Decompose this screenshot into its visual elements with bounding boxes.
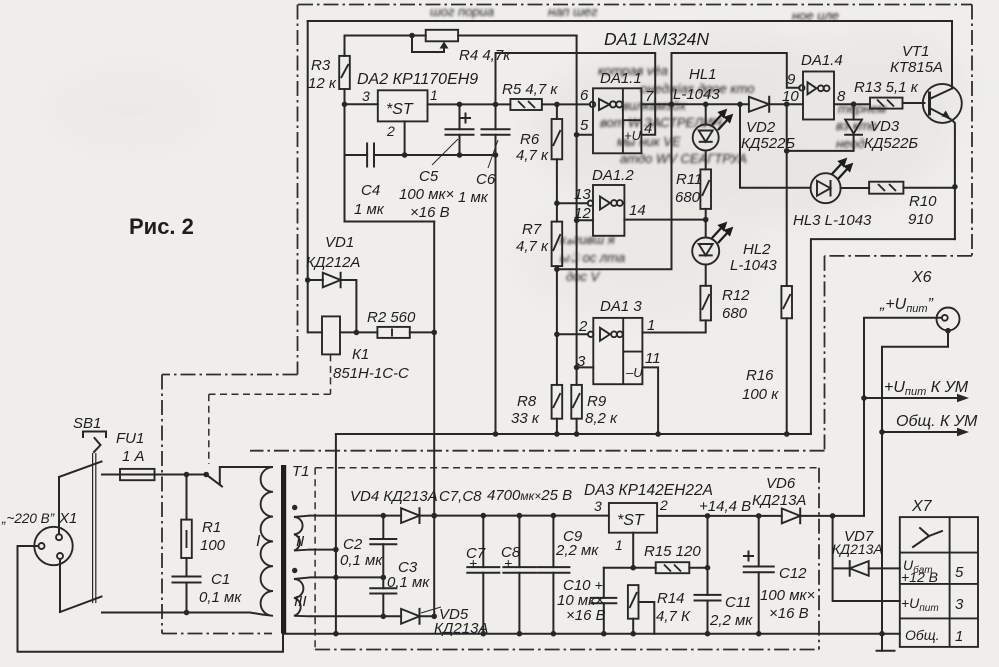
- svg-text:R12: R12: [722, 287, 750, 304]
- wire DA1.4 output: [834, 103, 870, 105]
- capacitor C1: [173, 577, 201, 613]
- node C3 bottom: [381, 614, 387, 620]
- svg-text:2,2 мк: 2,2 мк: [555, 542, 599, 559]
- svg-text:×16 В: ×16 В: [410, 204, 450, 221]
- node pin2 tap: [554, 332, 560, 338]
- node feedback output: [669, 102, 675, 108]
- svg-text:VD2: VD2: [746, 119, 776, 136]
- svg-text:7: 7: [645, 88, 654, 105]
- node R16 bus: [784, 431, 790, 437]
- node C9 bottom: [551, 631, 557, 637]
- svg-text:ыට ос лта: ыට ос лта: [560, 250, 625, 265]
- node R5 R6: [554, 102, 560, 108]
- node C6 top: [493, 102, 499, 108]
- node pin13 tap: [554, 200, 560, 206]
- svg-text:9: 9: [787, 71, 796, 88]
- svg-text:DA1 LM324N: DA1 LM324N: [604, 29, 709, 49]
- X7 plug symbol: [913, 528, 942, 547]
- capacitor C12: [744, 516, 774, 634]
- polarity plus of C12: [744, 552, 753, 561]
- common end bar: [877, 650, 895, 652]
- resistor R11: [700, 169, 711, 219]
- capacitor C11: [695, 595, 721, 601]
- pin 6 bubble: [590, 102, 595, 107]
- capacitor C8: [503, 516, 535, 634]
- resistor R1: [181, 475, 192, 577]
- svg-text:R9: R9: [587, 393, 607, 410]
- wire C4 line to raw bus: [345, 155, 435, 222]
- wire left rail down to K1: [308, 21, 322, 332]
- capacitor C2: [370, 516, 396, 578]
- svg-text:100 мк×: 100 мк×: [399, 186, 454, 203]
- wire pin 3: [577, 366, 593, 368]
- wire pole2 line: [102, 613, 262, 615]
- node R4 wiper junction: [409, 33, 415, 39]
- node R1 tap: [184, 472, 190, 478]
- node C7 bottom: [481, 631, 487, 637]
- node diode output bus: [431, 513, 437, 519]
- wire DA1.2 output: [624, 219, 705, 221]
- svg-text:3: 3: [955, 596, 964, 613]
- node C7 top: [481, 513, 487, 519]
- svg-text:Общ.: Общ.: [905, 627, 940, 643]
- svg-text:DA1 3: DA1 3: [600, 298, 642, 315]
- wire DA2 pin2 down: [404, 121, 406, 155]
- svg-text:100 мк×: 100 мк×: [760, 587, 815, 604]
- T1 primary winding I: [252, 467, 273, 616]
- wire DA2 output line: [428, 103, 511, 105]
- svg-text:C1: C1: [211, 571, 230, 588]
- connector X1: [34, 527, 72, 565]
- reference column B: [576, 36, 578, 385]
- wire X6 shell common: [882, 331, 948, 651]
- wire winding II bottom lead: [310, 549, 336, 551]
- wire VT1 collector riser: [951, 21, 953, 85]
- svg-text:вот W ЗАСТРЕЛИН: вот W ЗАСТРЕЛИН: [600, 115, 722, 130]
- svg-text:100 к: 100 к: [742, 386, 779, 403]
- wire X1 phase up: [58, 477, 60, 534]
- border top: [298, 4, 972, 6]
- svg-text:C2: C2: [343, 536, 363, 553]
- resistor R7: [552, 222, 563, 385]
- HL3 emission arrows: [832, 160, 852, 180]
- voltage regulator DA2: [378, 90, 428, 121]
- supply ground bus: [283, 633, 900, 635]
- svg-text:4,7 к: 4,7 к: [516, 238, 549, 255]
- divider column A R6: [552, 104, 563, 221]
- svg-text:2: 2: [659, 497, 668, 513]
- svg-text:L-1043: L-1043: [730, 257, 777, 274]
- svg-text:8,2 к: 8,2 к: [585, 410, 618, 427]
- svg-text:14: 14: [629, 202, 646, 219]
- wire feedback and pin9 route: [557, 53, 800, 269]
- diode VD1: [308, 273, 357, 333]
- border bottom of upper block: [250, 450, 825, 452]
- svg-text:+: +: [504, 555, 512, 571]
- node R3 pin3: [342, 102, 348, 108]
- resistor R12: [700, 286, 711, 321]
- svg-text:6: 6: [580, 87, 589, 104]
- HL2 emission arrows: [712, 224, 732, 244]
- svg-text:R6: R6: [520, 131, 540, 148]
- node C8 bottom: [517, 631, 523, 637]
- svg-text:R14: R14: [657, 590, 685, 607]
- capacitor C6: [482, 53, 510, 434]
- connector X6: [937, 308, 960, 334]
- regulator DA3: [609, 503, 657, 533]
- diode VD2: [749, 97, 803, 112]
- svg-text:12 к: 12 к: [308, 75, 337, 92]
- svg-text:+14,4 В: +14,4 В: [699, 498, 751, 515]
- svg-text:×16 В: ×16 В: [769, 605, 809, 622]
- svg-text:DA2 КР1170ЕН9: DA2 КР1170ЕН9: [357, 71, 478, 88]
- wire X6 pin feed: [864, 318, 942, 516]
- svg-text:кەгивш я: кەгивш я: [560, 232, 615, 247]
- switch SB1 pole 1: [59, 462, 102, 478]
- op-amp DA1.4: [803, 72, 834, 120]
- pin 2 bubble: [588, 332, 593, 337]
- svg-text:R4 4,7к: R4 4,7к: [459, 47, 511, 64]
- node pin3 tap: [574, 365, 580, 371]
- svg-text:R8: R8: [517, 393, 537, 410]
- svg-text:Рис. 2: Рис. 2: [129, 214, 194, 239]
- capacitor C4: [367, 144, 374, 167]
- svg-text:R15 120: R15 120: [644, 543, 701, 560]
- wire pin 2: [557, 333, 588, 335]
- node +Uпит tap: [861, 395, 867, 401]
- svg-text:VD6: VD6: [766, 475, 796, 492]
- node C12 bottom: [756, 631, 762, 637]
- svg-text:R1: R1: [202, 519, 221, 536]
- node R11 DA1.2 out: [703, 217, 709, 223]
- wire X1 shell to earth line: [18, 546, 284, 652]
- svg-text:DA1.4: DA1.4: [801, 52, 843, 69]
- diode VD7: [850, 561, 900, 576]
- node center column ground bus: [333, 631, 339, 637]
- border step left: [162, 374, 298, 376]
- node C12 top: [756, 513, 762, 519]
- common bus of upper block: [336, 433, 811, 435]
- border step right: [825, 255, 973, 257]
- polarity dot III: [292, 568, 297, 573]
- svg-text:К1: К1: [352, 346, 369, 363]
- svg-text:3: 3: [362, 88, 370, 104]
- resistor R9: [571, 385, 582, 434]
- svg-text:1 мк: 1 мк: [354, 201, 385, 218]
- border right: [971, 5, 973, 256]
- node VD5 riser: [431, 614, 437, 620]
- svg-text:1 мк: 1 мк: [458, 189, 489, 206]
- resistor R3: [339, 36, 350, 156]
- svg-text:4,7 к: 4,7 к: [516, 147, 549, 164]
- wire DA1.3 output: [642, 320, 705, 332]
- svg-text:VD3: VD3: [870, 118, 900, 135]
- svg-text:5: 5: [580, 117, 589, 134]
- svg-text:КД522Б: КД522Б: [864, 135, 918, 152]
- wire emitter return to bus: [811, 239, 955, 434]
- resistor R15: [656, 562, 708, 573]
- svg-text:КТ815А: КТ815А: [890, 59, 943, 76]
- node C9 top: [551, 513, 557, 519]
- relay contact K1.1: [203, 467, 252, 487]
- svg-text:0,1 мк: 0,1 мк: [340, 552, 383, 569]
- svg-text:1: 1: [615, 537, 623, 553]
- pin 13 bubble: [588, 201, 593, 206]
- wire DA2 pin3: [345, 103, 378, 105]
- resistor R10: [869, 182, 955, 194]
- svg-text:4: 4: [644, 120, 652, 137]
- node feedback tap: [554, 266, 560, 272]
- node pin5 tap: [574, 132, 580, 138]
- resistor R5: [510, 99, 542, 110]
- wire pole1 to fuse: [102, 474, 206, 476]
- svg-text:Общ. К УМ: Общ. К УМ: [896, 413, 978, 430]
- border left lower: [161, 375, 163, 634]
- node pin11 bus: [655, 431, 661, 437]
- node HL1 tap: [703, 102, 709, 108]
- diode VD5: [401, 609, 434, 624]
- wire regulator ground line: [345, 154, 496, 156]
- node C2 top: [381, 513, 387, 519]
- svg-text:SB1: SB1: [73, 415, 101, 432]
- svg-text:FU1: FU1: [116, 430, 144, 447]
- wire R3 to R4: [345, 35, 426, 37]
- svg-text:10: 10: [782, 88, 799, 105]
- switch SB1 pole 2: [60, 597, 102, 613]
- node C6 gnd: [493, 152, 499, 158]
- node VD3 R16 column: [784, 148, 790, 154]
- top supply rail: [308, 20, 952, 22]
- wire DA1.1 output: [641, 103, 749, 105]
- wire DA3 output line: [657, 515, 782, 517]
- svg-text:2,2 мк: 2,2 мк: [709, 612, 753, 629]
- node R8 bus: [554, 431, 560, 437]
- node VD2 DA1.4 input: [784, 101, 790, 107]
- border left: [297, 5, 299, 375]
- op-amp DA1.1: [593, 88, 641, 153]
- svg-text:+Uпит К УМ: +Uпит К УМ: [884, 379, 969, 398]
- wire output sense column: [707, 516, 709, 634]
- svg-text:2: 2: [386, 123, 395, 139]
- svg-text:R10: R10: [909, 193, 937, 210]
- svg-text:1: 1: [955, 628, 963, 645]
- node C8 top: [517, 513, 523, 519]
- wire pin 12: [577, 219, 593, 221]
- capacitor C7: [467, 516, 499, 634]
- svg-text:II: II: [296, 533, 304, 550]
- node C2 C3 junction: [381, 575, 387, 581]
- resistor R2: [377, 327, 434, 338]
- svg-text:1: 1: [647, 317, 655, 334]
- diode VD3: [787, 104, 862, 151]
- wire pin 11 to bus: [642, 367, 658, 434]
- svg-text:X1: X1: [58, 510, 77, 527]
- node VD1 cathode R2: [354, 330, 360, 336]
- svg-text:T1: T1: [292, 463, 310, 480]
- capacitor C9: [537, 516, 569, 634]
- pushbutton SB1 actuator: [83, 432, 106, 453]
- node output VD3: [851, 101, 857, 107]
- wire winding III top lead: [310, 576, 383, 578]
- svg-text:11: 11: [645, 350, 661, 367]
- leader VD5: [421, 607, 441, 613]
- svg-text:VD4 КД213А: VD4 КД213А: [350, 488, 438, 505]
- svg-text:851Н-1С-С: 851Н-1С-С: [333, 365, 409, 382]
- node C6 column bus: [493, 431, 499, 437]
- svg-text:шог пориа: шог пориа: [430, 4, 494, 19]
- node VD1 anode: [305, 277, 311, 283]
- node C5 bottom: [457, 152, 463, 158]
- svg-text:DA3 КР142ЕН22А: DA3 КР142ЕН22А: [584, 482, 713, 499]
- node adj R14: [630, 565, 636, 571]
- svg-text:4,7 К: 4,7 К: [656, 608, 691, 625]
- svg-text:2: 2: [578, 318, 588, 335]
- T1 winding II: [294, 516, 310, 551]
- power-supply block border: [314, 468, 316, 650]
- svg-text:R11: R11: [676, 171, 702, 188]
- connector X7 table: [900, 517, 978, 647]
- svg-text:13: 13: [574, 186, 591, 203]
- wire winding III bottom lead: [310, 615, 401, 617]
- wire VD7 branch column: [833, 516, 900, 601]
- node R9 bus: [574, 431, 580, 437]
- svg-text:X7: X7: [911, 498, 933, 515]
- node C1 bottom: [184, 610, 190, 616]
- node center tap: [333, 575, 339, 581]
- node emitter R10: [952, 184, 958, 190]
- svg-text:–U: –U: [625, 365, 643, 380]
- wire R14 side stub: [639, 602, 655, 634]
- LED HL2: [692, 220, 719, 286]
- svg-text:R13 5,1 к: R13 5,1 к: [854, 79, 919, 96]
- polarity dot II: [292, 505, 297, 510]
- SB1 linkage stem: [93, 453, 96, 603]
- svg-text:R7: R7: [522, 221, 542, 238]
- node VD4 output: [431, 513, 437, 519]
- svg-text:C12: C12: [779, 565, 807, 582]
- svg-text:„~220 В”: „~220 В”: [1, 511, 55, 526]
- svg-text:C11: C11: [725, 594, 751, 611]
- wire adj node line: [604, 567, 656, 569]
- svg-text:VD1: VD1: [325, 234, 354, 251]
- wire X1 neutral down: [59, 559, 61, 612]
- leader C5: [432, 139, 458, 165]
- wire DA3 adj pin1: [632, 533, 634, 568]
- transformer T1 core: [281, 465, 286, 634]
- svg-text:нап шег: нап шег: [548, 4, 598, 19]
- resistor R13: [870, 98, 925, 109]
- node pin12 tap: [574, 218, 580, 224]
- svg-text:КД213А: КД213А: [752, 492, 806, 509]
- resistor R14: [628, 585, 639, 634]
- svg-text:DA1.1: DA1.1: [600, 70, 642, 87]
- wire Общ К УМ with arrow: [882, 428, 969, 436]
- node HL3 branch tap: [737, 102, 743, 108]
- svg-text:R3: R3: [311, 57, 331, 74]
- svg-text:0,1 мк: 0,1 мк: [199, 589, 242, 606]
- svg-text:R2 560: R2 560: [367, 309, 416, 326]
- svg-text:VT1: VT1: [902, 43, 930, 60]
- wire +Uпит К УМ with arrow: [864, 394, 969, 402]
- svg-text:8: 8: [837, 88, 846, 105]
- svg-text:680: 680: [675, 189, 701, 206]
- resistor R16: [781, 286, 792, 434]
- capacitor C5: [446, 104, 474, 155]
- node sense R15: [705, 565, 711, 571]
- relay K1 linkage dashed: [209, 354, 331, 464]
- svg-text:+U: +U: [624, 128, 642, 143]
- svg-text:910: 910: [908, 211, 934, 228]
- node C10 bottom: [601, 631, 607, 637]
- svg-text:дос V: дос V: [566, 269, 601, 284]
- border bottom left stub: [162, 633, 272, 635]
- svg-text:I: I: [256, 533, 261, 550]
- svg-text:C4: C4: [361, 182, 380, 199]
- svg-text:33 к: 33 к: [511, 410, 540, 427]
- polarity plus of C5: [461, 114, 470, 123]
- leader C6: [488, 140, 498, 168]
- svg-text:680: 680: [722, 305, 748, 322]
- svg-text:HL2: HL2: [743, 241, 771, 258]
- node C11 bottom: [705, 631, 711, 637]
- wire R5 to pin6: [542, 103, 590, 105]
- wire raw supply column: [433, 222, 435, 617]
- svg-text:3: 3: [594, 498, 602, 514]
- svg-text:C7,C8: C7,C8: [439, 488, 482, 505]
- svg-text:0,1 мк: 0,1 мк: [387, 574, 430, 591]
- capacitor C10: [591, 568, 616, 634]
- svg-text:L-1043: L-1043: [673, 86, 720, 103]
- node sense top: [705, 513, 711, 519]
- svg-text:5: 5: [955, 564, 964, 581]
- node R14 bus: [630, 631, 636, 637]
- relay coil K1: [322, 316, 377, 354]
- svg-text:1 А: 1 А: [122, 448, 145, 465]
- svg-text:DA1.2: DA1.2: [592, 167, 634, 184]
- wire pin 13: [557, 202, 588, 204]
- node Общ tap: [879, 429, 885, 435]
- op-amp DA1.3: [593, 318, 642, 384]
- svg-text:*ST: *ST: [386, 101, 414, 118]
- potentiometer R4: [412, 30, 458, 52]
- wire center tap column: [335, 434, 337, 634]
- svg-text:C5: C5: [419, 168, 439, 185]
- svg-text:КД212А: КД212А: [306, 254, 360, 271]
- svg-text:R16: R16: [746, 367, 774, 384]
- svg-text:×16 В: ×16 В: [566, 607, 606, 624]
- svg-text:КД213А: КД213А: [832, 541, 883, 557]
- diode VD4: [401, 508, 419, 523]
- transistor VT1: [923, 84, 962, 239]
- node gnd pin2: [402, 152, 408, 158]
- LED HL3: [811, 173, 870, 203]
- node Общ column bus: [879, 631, 885, 637]
- wire R4 to column B: [458, 35, 576, 37]
- svg-text:C6: C6: [476, 171, 496, 188]
- wire +U supply rail to pin4: [496, 53, 656, 135]
- svg-text:100: 100: [200, 537, 226, 554]
- capacitor C3: [370, 577, 396, 616]
- svg-text:+12 В: +12 В: [901, 569, 938, 585]
- svg-text:неод: неод: [836, 136, 865, 151]
- op-amp DA1.2: [593, 185, 624, 236]
- resistor R8: [552, 385, 563, 434]
- svg-text:4700мк×25 В: 4700мк×25 В: [487, 487, 572, 504]
- wire rectified plus bus: [310, 515, 609, 517]
- wire HL3 branch: [740, 104, 811, 188]
- diode VD6: [782, 509, 864, 524]
- svg-text:III: III: [294, 593, 307, 610]
